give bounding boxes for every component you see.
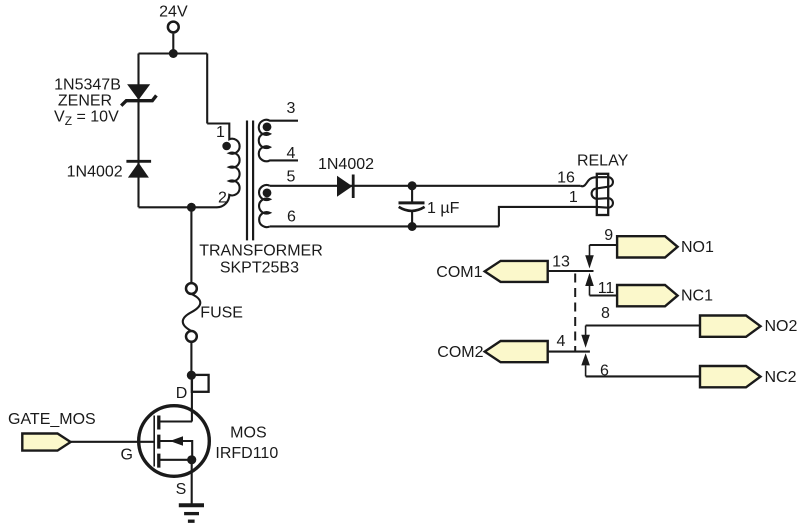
svg-text:NC1: NC1 [681,288,713,305]
svg-text:1: 1 [216,124,225,141]
svg-text:6: 6 [287,208,296,225]
svg-text:6: 6 [600,363,609,380]
svg-text:SKPT25B3: SKPT25B3 [220,260,299,277]
svg-text:2: 2 [218,189,227,206]
svg-text:11: 11 [598,280,615,297]
svg-text:16: 16 [557,170,575,187]
svg-text:G: G [120,447,132,464]
svg-text:13: 13 [552,254,570,271]
svg-text:D: D [176,385,188,402]
svg-text:1: 1 [569,189,578,206]
svg-text:1N5347B: 1N5347B [54,77,121,94]
svg-text:1 µF: 1 µF [427,200,460,217]
svg-text:FUSE: FUSE [200,305,243,322]
svg-text:TRANSFORMER: TRANSFORMER [199,243,323,260]
svg-text:IRFD110: IRFD110 [215,445,278,462]
svg-text:4: 4 [287,145,296,162]
svg-text:NO2: NO2 [765,318,798,335]
svg-text:GATE_MOS: GATE_MOS [8,411,96,428]
svg-text:MOS: MOS [230,425,266,442]
svg-text:24V: 24V [159,4,188,21]
svg-text:S: S [176,481,187,498]
svg-text:VZ = 10V: VZ = 10V [54,109,119,129]
svg-text:4: 4 [557,333,566,350]
svg-text:COM1: COM1 [436,264,482,281]
svg-text:RELAY: RELAY [577,152,629,169]
svg-text:9: 9 [604,227,613,244]
svg-text:NO1: NO1 [681,239,714,256]
svg-text:5: 5 [287,169,296,186]
svg-text:NC2: NC2 [765,369,797,386]
svg-text:ZENER: ZENER [58,93,112,110]
svg-text:3: 3 [287,100,296,117]
svg-text:1N4002: 1N4002 [318,156,374,173]
svg-text:1N4002: 1N4002 [67,163,123,180]
svg-text:8: 8 [601,305,610,322]
svg-text:COM2: COM2 [437,344,483,361]
